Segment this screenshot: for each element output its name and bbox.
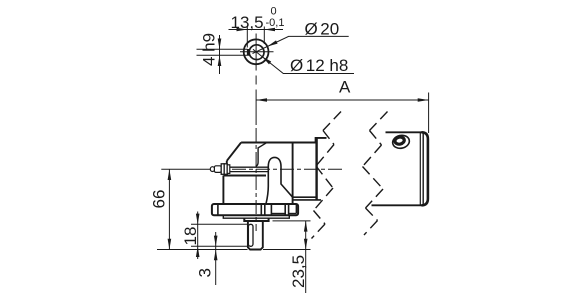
plug collar	[227, 165, 230, 174]
flange divider 4	[284, 204, 286, 215]
vertical centerline through circle	[255, 34, 257, 71]
gearbox right edge	[292, 143, 294, 205]
flange divider 6	[295, 204, 297, 214]
svg-text:0: 0	[271, 6, 277, 18]
dim 23,5 extension line top	[273, 220, 311, 222]
dim A dimension line	[256, 99, 429, 101]
plug washer 1	[221, 164, 224, 175]
motor rear cap second line	[422, 133, 424, 204]
dim 18 arrow top	[196, 214, 200, 225]
horizontal centerline through circle	[240, 51, 274, 53]
shaft keyway	[248, 224, 253, 246]
dim 18 dimension line	[197, 212, 199, 260]
svg-text:Ø12 h8: Ø12 h8	[290, 56, 348, 75]
end view outer circle Ø20	[244, 39, 269, 64]
dim A extension line right	[428, 93, 430, 134]
gearbox head left diagonal	[227, 143, 241, 161]
flange window 1 bottom	[271, 213, 285, 215]
break zigzag gearbox side	[312, 112, 342, 239]
body top edge	[223, 175, 266, 177]
motor rear cap rim	[422, 132, 428, 205]
svg-text:4 h9: 4 h9	[200, 33, 219, 66]
dim 13,5 arrow left	[237, 28, 248, 32]
svg-text:66: 66	[150, 190, 169, 209]
dim 18 arrow bottom	[196, 246, 200, 257]
head interior step	[256, 143, 267, 167]
flange divider 1	[260, 204, 262, 215]
horizontal centerline left segment (66 top extension)	[161, 168, 210, 170]
dim 23,5 arrow bottom	[304, 239, 308, 250]
dim A extension line left (shaft centerline)	[255, 90, 257, 126]
plug cap	[210, 167, 214, 172]
dim 23,5 arrow top	[304, 221, 308, 232]
leader line Ø20	[253, 36, 349, 53]
flange window 2 bottom	[289, 213, 297, 215]
dome hump	[266, 157, 293, 203]
svg-text:A: A	[339, 78, 351, 97]
dim 4h9 extension line bottom	[197, 54, 251, 56]
leader arrow Ø12 h8	[262, 56, 271, 64]
dim 4h9 dimension line	[219, 35, 221, 74]
dim A arrow left	[256, 98, 267, 102]
motor bottom line 1	[293, 196, 317, 198]
flange outline	[212, 204, 298, 215]
motor rear cap inner line	[419, 133, 421, 205]
centerline dash below circle	[255, 76, 257, 85]
svg-text:3: 3	[196, 268, 215, 277]
dim 66 bottom extension line	[157, 249, 248, 251]
flange left cap line	[217, 204, 219, 215]
flange divider 3	[270, 204, 272, 215]
dim 13,5 extension line right	[263, 27, 265, 45]
leader line Ø12 h8	[253, 49, 354, 73]
dim 23,5 dimension line	[305, 221, 307, 293]
dim 13,5 dimension line	[229, 29, 284, 31]
dim A arrow right	[418, 98, 429, 102]
plug washer 2	[224, 164, 227, 175]
body left edge	[222, 176, 224, 205]
motor rear piece top edge	[386, 131, 422, 133]
flange divider 5	[288, 204, 290, 215]
dim 3 arrow top	[214, 236, 218, 247]
dim 66 arrow top	[168, 169, 172, 180]
end view inner circle Ø12	[249, 45, 264, 60]
dim 66 dimension line	[168, 169, 170, 249]
dim 4h9 extension line top	[197, 48, 248, 50]
break zigzag rear piece side	[363, 112, 388, 236]
output boss	[244, 218, 268, 221]
plug mid piece	[214, 166, 221, 173]
dim 4h9 arrow top	[218, 39, 222, 50]
flange divider 2	[264, 204, 266, 215]
gearbox head left edge	[226, 161, 228, 176]
rear piece eyelet outer	[391, 134, 410, 150]
svg-text:18: 18	[181, 227, 200, 246]
dim 3 arrow bottom	[214, 250, 218, 261]
boss bottom face line	[244, 220, 268, 222]
motor rear piece bottom edge	[372, 204, 422, 206]
svg-text:23,5: 23,5	[289, 255, 308, 288]
motor bottom line 2	[293, 199, 321, 201]
worm shaft upper line	[230, 166, 269, 168]
worm shaft lower line	[230, 171, 269, 173]
gearbox head top edge	[241, 142, 316, 144]
output shaft	[248, 221, 263, 250]
rear piece eyelet inner	[394, 136, 405, 145]
dim 13,5 arrow right	[264, 28, 275, 32]
motor top tab	[316, 138, 327, 143]
svg-text:Ø20: Ø20	[305, 20, 340, 39]
vertical centerline through body	[255, 128, 257, 231]
motor mounting face	[315, 138, 317, 200]
dim 4h9 arrow bottom	[218, 55, 222, 66]
base plate under flange	[223, 215, 289, 218]
horizontal centerline through body	[232, 168, 343, 170]
shaft end line right segment (23,5 bottom extension)	[263, 249, 311, 251]
leader arrow Ø20	[267, 40, 277, 46]
dim 18 extension line bottom (keyway end)	[191, 245, 248, 247]
svg-text:13,5: 13,5	[231, 13, 264, 32]
dim 3 dimension line	[215, 232, 217, 285]
dim 18 extension line top	[191, 223, 248, 225]
keyway in bore	[247, 49, 250, 55]
svg-text:-0,1: -0,1	[266, 17, 285, 29]
dim 13,5 extension line left	[246, 27, 248, 48]
dim 66 arrow bottom	[168, 239, 172, 250]
